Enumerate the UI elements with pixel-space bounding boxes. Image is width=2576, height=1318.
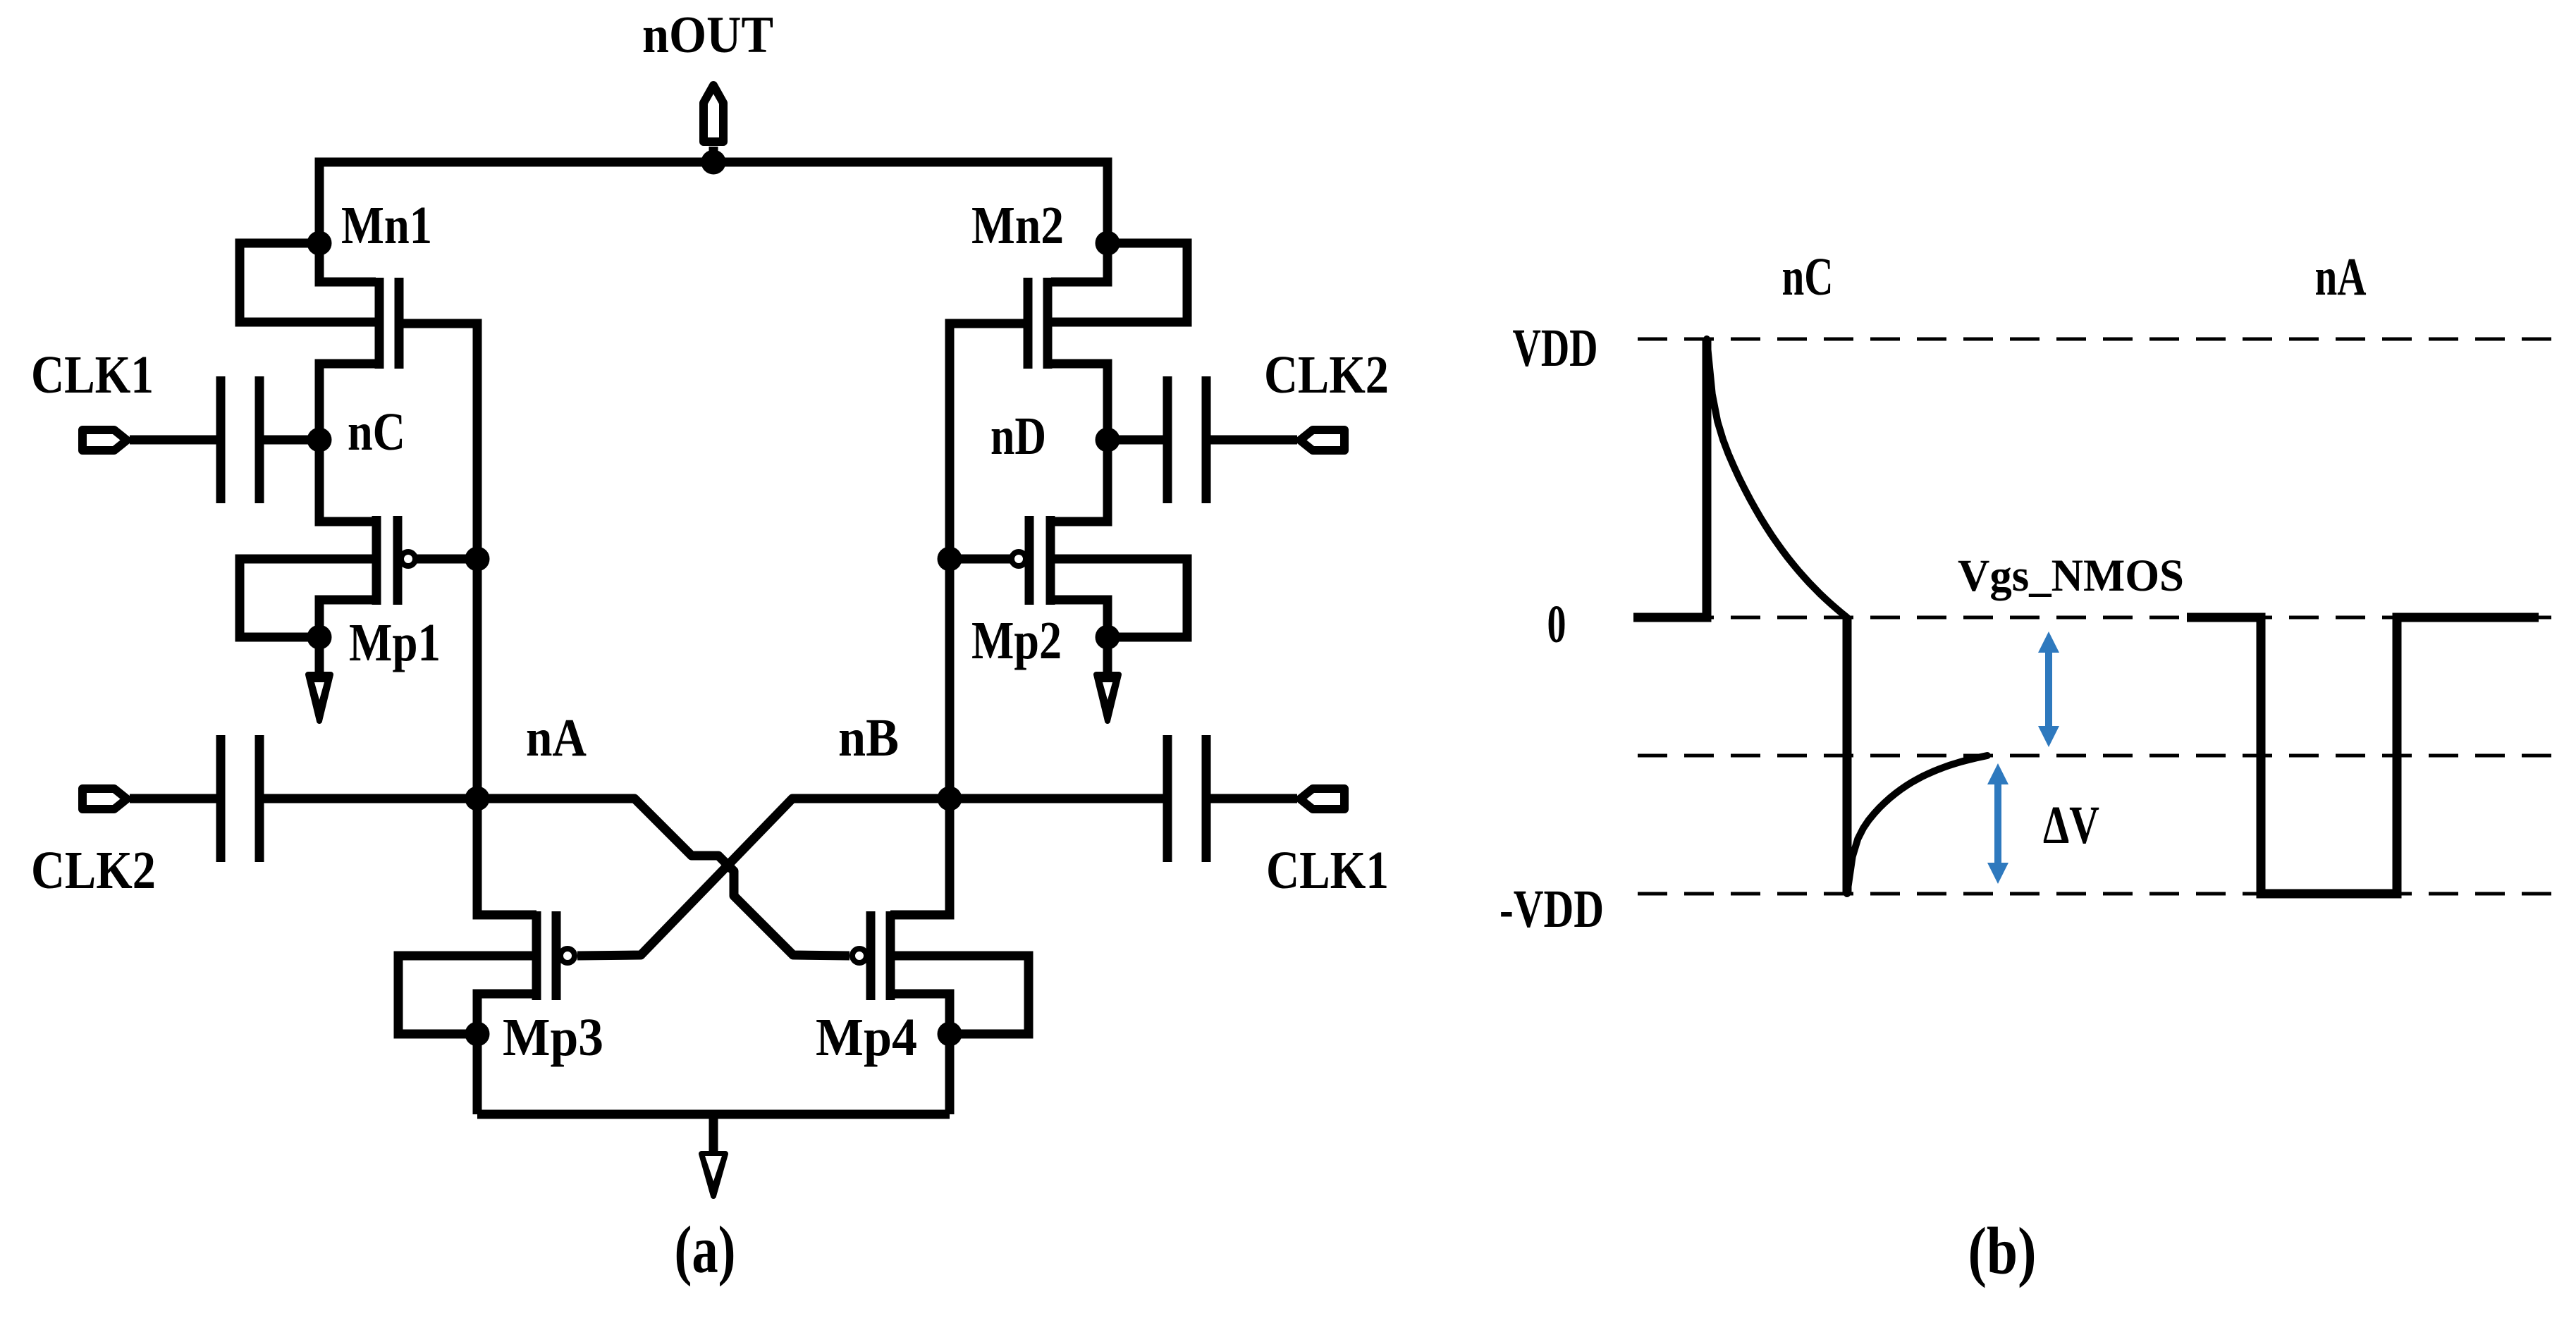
svg-text:Mp1: Mp1 [349,613,441,672]
svg-text:Mn1: Mn1 [341,196,432,255]
svg-text:0: 0 [1547,595,1566,654]
svg-text:nC: nC [1782,247,1834,307]
svg-text:(a): (a) [675,1212,736,1287]
svg-text:Vgs_NMOS: Vgs_NMOS [1958,550,2184,601]
svg-text:CLK2: CLK2 [1264,345,1389,405]
svg-text:CLK1: CLK1 [31,345,154,405]
svg-text:CLK2: CLK2 [31,841,156,900]
svg-text:CLK1: CLK1 [1266,841,1389,900]
svg-text:nB: nB [838,708,899,768]
svg-text:Mn2: Mn2 [971,196,1064,255]
svg-text:Mp2: Mp2 [971,611,1062,670]
svg-text:nA: nA [2315,247,2367,307]
svg-text:nOUT: nOUT [642,6,773,64]
svg-text:ΔV: ΔV [2043,796,2099,855]
svg-text:(b): (b) [1968,1214,2037,1288]
svg-text:-VDD: -VDD [1499,880,1604,939]
svg-text:Mp3: Mp3 [503,1008,603,1067]
svg-text:Mp4: Mp4 [816,1008,917,1067]
svg-text:VDD: VDD [1513,319,1598,378]
svg-text:nC: nC [348,402,405,462]
svg-text:nA: nA [526,708,587,768]
svg-text:nD: nD [990,407,1046,466]
